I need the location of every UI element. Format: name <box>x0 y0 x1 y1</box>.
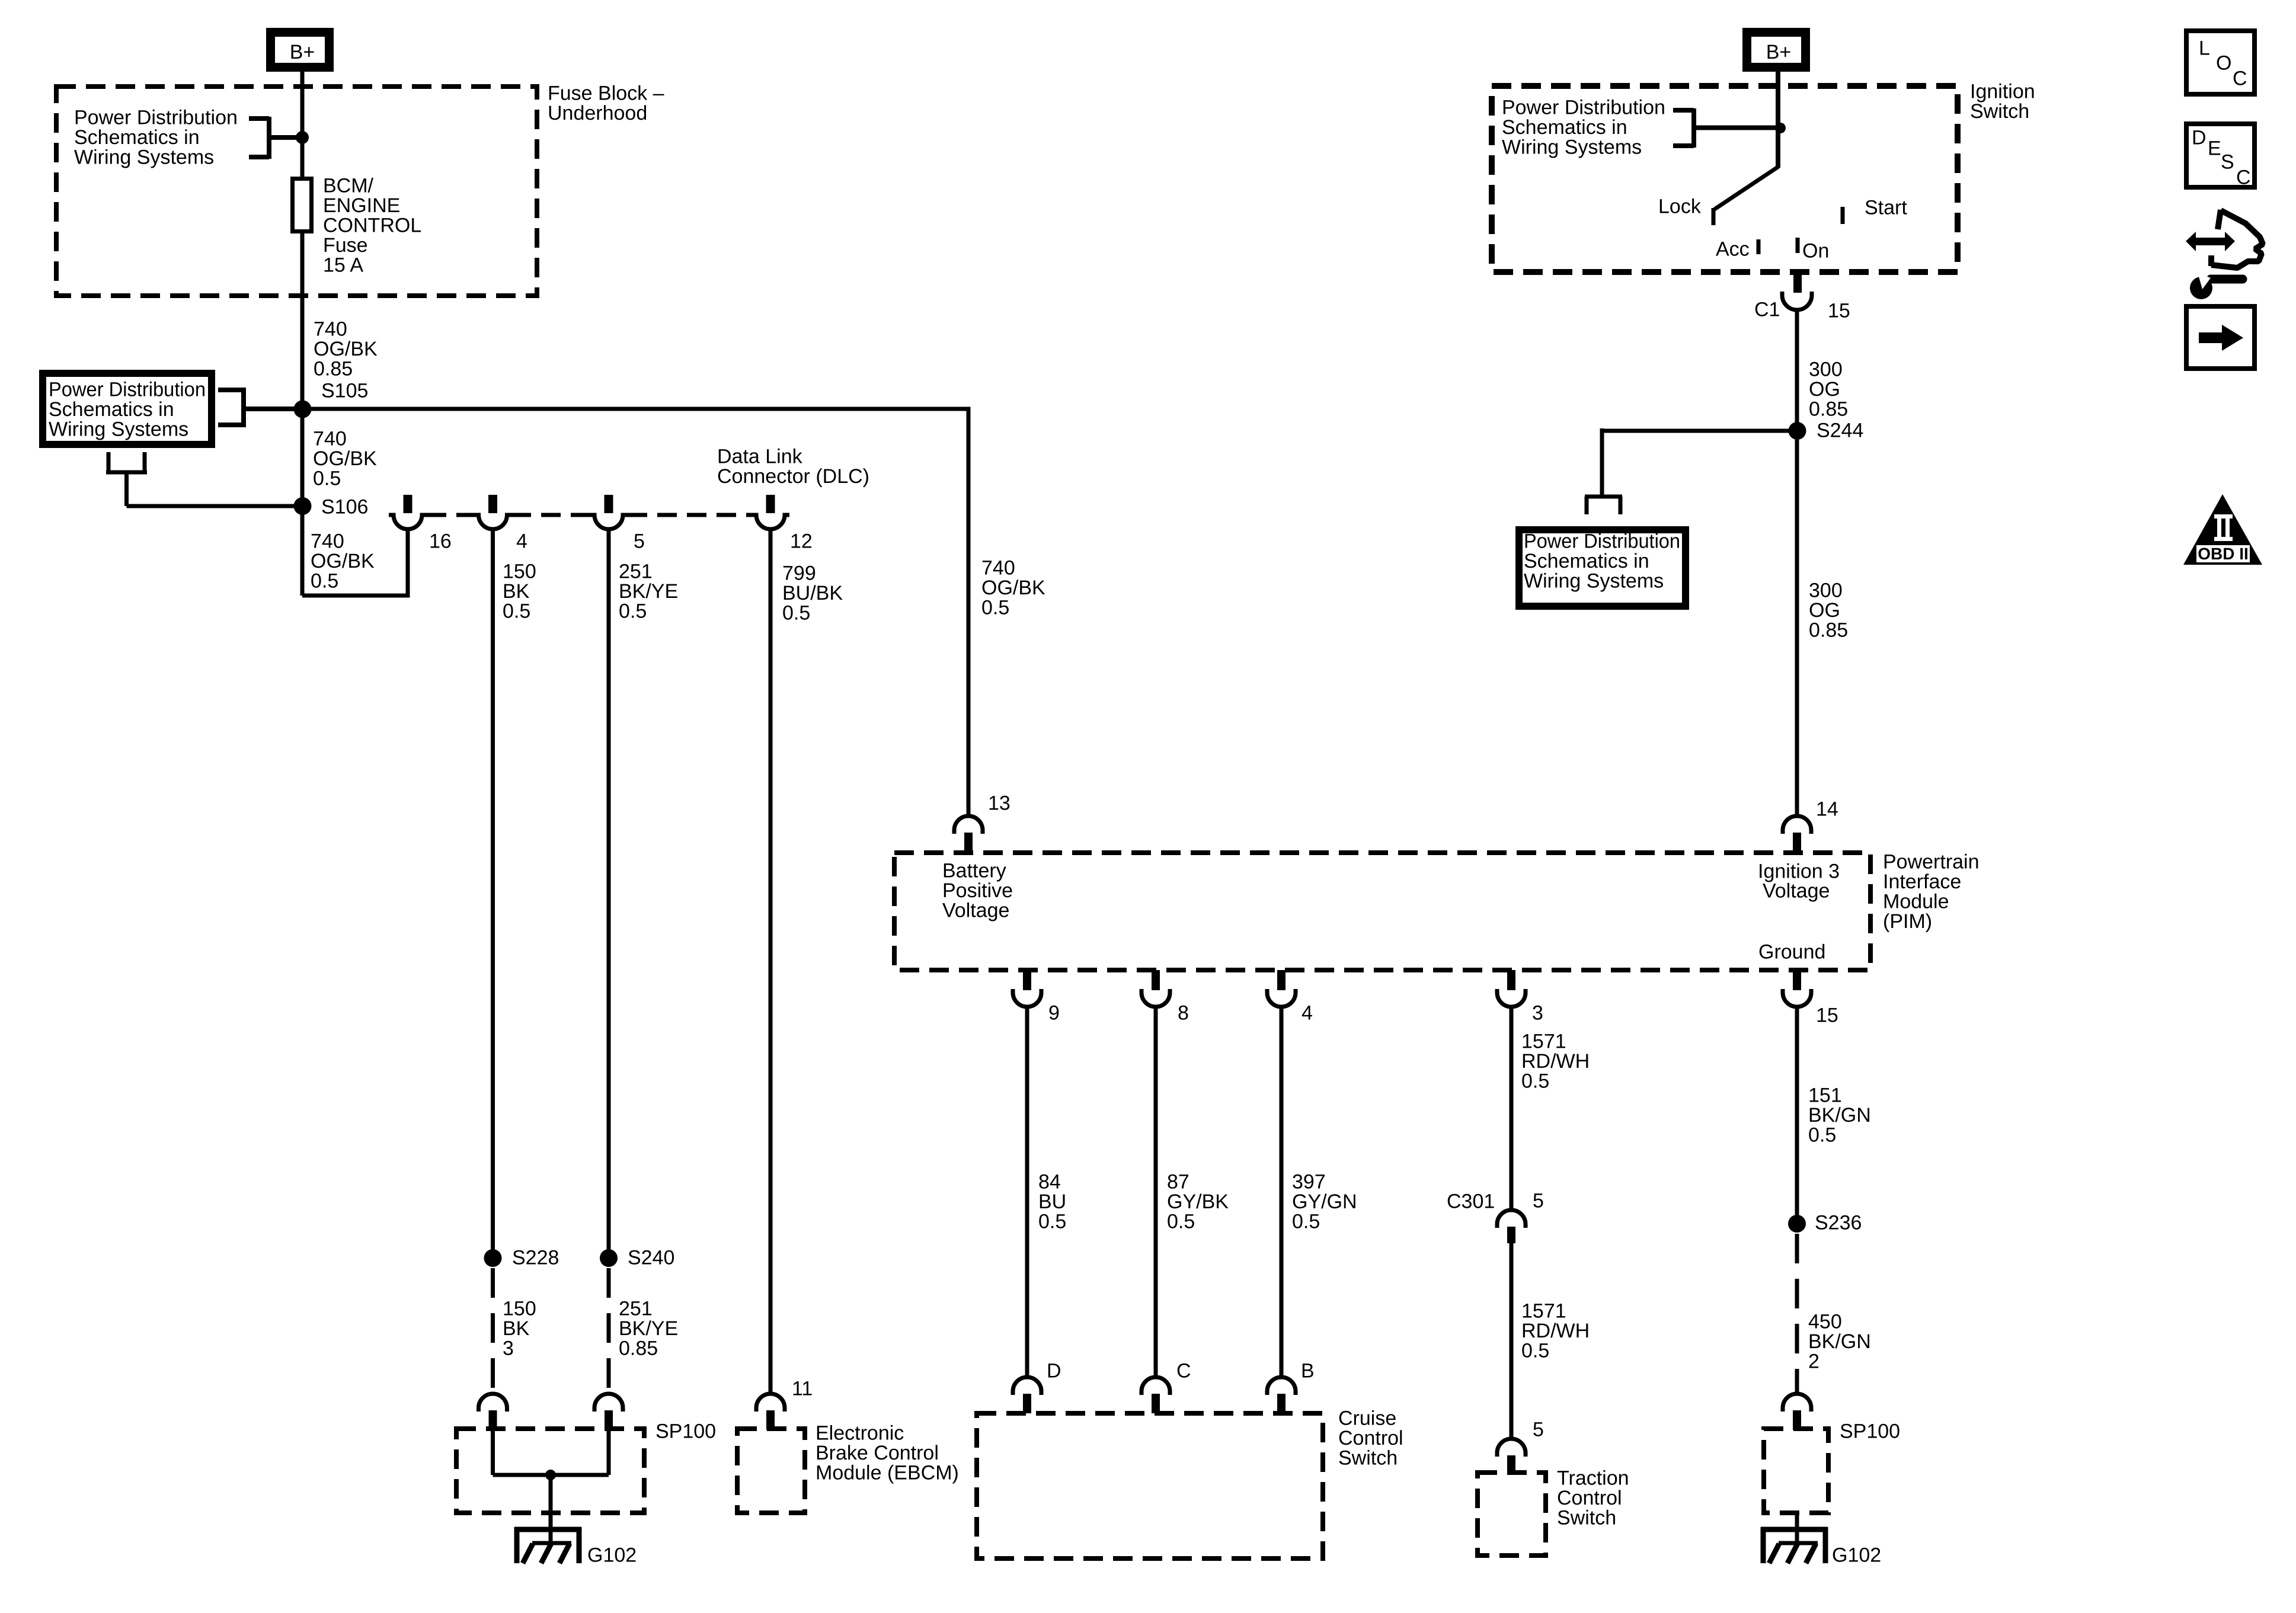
label wire 84 BU 0.5 <box>1038 1171 1066 1233</box>
svg-text:S236: S236 <box>1815 1212 1862 1234</box>
label pin 12 <box>790 530 813 553</box>
connector DLC pin 5 <box>590 495 628 529</box>
label wire 740 OG/BK 0.5 (S106-DLC16) <box>311 530 375 593</box>
svg-text:14: 14 <box>1816 798 1838 821</box>
component box Powertrain Interface Module (dashed) <box>894 853 1870 970</box>
label pin 8 <box>1178 1002 1189 1025</box>
svg-text:16: 16 <box>429 530 452 553</box>
svg-text:Ground: Ground <box>1758 941 1825 964</box>
label Cruise Control Switch <box>1338 1407 1403 1470</box>
label pin 14 <box>1816 798 1838 821</box>
svg-text:S240: S240 <box>628 1247 674 1269</box>
svg-text:Schematics in: Schematics in <box>74 126 200 149</box>
wire SP100 internal join <box>493 1429 609 1542</box>
component box SP100 splice pack (right, dashed) <box>1764 1429 1828 1513</box>
svg-text:SP100: SP100 <box>1840 1420 1900 1443</box>
svg-text:0.5: 0.5 <box>313 468 341 490</box>
svg-text:OG/BK: OG/BK <box>311 550 375 572</box>
label Power Distribution (left box) <box>49 379 206 441</box>
wire 251 BK/YE from DLC pin 5 to S240 <box>607 529 611 1258</box>
svg-text:Switch: Switch <box>1557 1507 1616 1529</box>
contact tick Lock <box>1712 208 1716 225</box>
svg-text:RD/WH: RD/WH <box>1521 1050 1590 1073</box>
svg-text:3: 3 <box>1532 1002 1543 1025</box>
wire 1571 RD/WH from PIM 3 to C301 <box>1510 1007 1514 1210</box>
svg-text:OG/BK: OG/BK <box>981 577 1045 599</box>
svg-text:0.85: 0.85 <box>619 1337 658 1360</box>
label wire 300 OG 0.85 (upper) <box>1809 359 1848 421</box>
wire ignition switch wiper to Lock <box>1715 167 1779 209</box>
node S228 <box>484 1249 502 1267</box>
label pin 11 <box>792 1378 813 1400</box>
connector cruise control switch pin B <box>1267 1377 1296 1413</box>
label Start <box>1865 197 1907 219</box>
component box Cruise Control Switch (dashed) <box>977 1413 1323 1558</box>
svg-text:BCM/: BCM/ <box>323 175 374 197</box>
label G102 (left) <box>587 1544 637 1567</box>
label pin 3 <box>1532 1002 1543 1025</box>
svg-text:B: B <box>1301 1360 1315 1382</box>
connector PIM pin 15 (bottom) <box>1783 970 1811 1007</box>
svg-text:S228: S228 <box>512 1247 559 1269</box>
connector C1 pin 15 <box>1782 272 1812 310</box>
label pin 15 <box>1816 1004 1838 1027</box>
label S105 <box>321 380 368 402</box>
bracket left box to S105 <box>218 388 295 427</box>
label pin C <box>1176 1360 1191 1382</box>
svg-text:S244: S244 <box>1817 420 1863 442</box>
svg-text:C: C <box>1176 1360 1191 1382</box>
svg-text:3: 3 <box>503 1337 514 1360</box>
connector PIM pin 8 (bottom) <box>1141 970 1170 1007</box>
svg-text:87: 87 <box>1167 1171 1189 1193</box>
wire B+ to fuse <box>300 70 305 178</box>
label wire 450 BK/GN 2 <box>1808 1311 1871 1373</box>
svg-text:Powertrain: Powertrain <box>1883 851 1980 873</box>
connector EBCM pin 11 <box>756 1394 785 1430</box>
svg-text:Module: Module <box>1883 891 1949 913</box>
svg-text:450: 450 <box>1808 1311 1842 1333</box>
svg-text:CONTROL: CONTROL <box>323 215 421 237</box>
label pin 13 <box>988 792 1011 815</box>
svg-text:G102: G102 <box>587 1544 637 1567</box>
svg-text:397: 397 <box>1292 1171 1326 1193</box>
wire S244 branch left <box>1602 429 1797 433</box>
label pin 5 (C301) <box>1533 1190 1544 1212</box>
label wire 740 OG/BK 0.85 <box>314 318 378 380</box>
label C1 <box>1754 299 1780 321</box>
svg-text:D: D <box>2192 127 2207 149</box>
node S106 <box>294 497 312 515</box>
label Ground <box>1758 941 1825 964</box>
svg-text:Power Distribution: Power Distribution <box>1502 97 1665 119</box>
label G102 (right) <box>1832 1544 1881 1567</box>
svg-text:GY/BK: GY/BK <box>1167 1190 1229 1213</box>
svg-text:GY/GN: GY/GN <box>1292 1190 1357 1213</box>
label Power Distribution (right box) <box>1524 530 1680 593</box>
svg-text:Power Distribution: Power Distribution <box>1524 530 1680 553</box>
bracket to B+ feed <box>249 117 296 159</box>
svg-text:OG: OG <box>1809 599 1840 622</box>
label Voltage (Ignition 3) <box>1763 880 1830 902</box>
svg-text:Lock: Lock <box>1658 196 1702 218</box>
label wire 1571 RD/WH 0.5 (lower) <box>1521 1300 1590 1362</box>
label pin 4 <box>1302 1002 1313 1025</box>
svg-text:15: 15 <box>1828 300 1850 322</box>
svg-text:9: 9 <box>1048 1002 1060 1025</box>
connector PIM pin 9 (bottom) <box>1013 970 1041 1007</box>
svg-text:Switch: Switch <box>1970 100 2029 123</box>
power symbol B+ (left) <box>271 33 330 68</box>
svg-text:Interface: Interface <box>1883 870 1961 893</box>
wire S106 to DLC pin 16 <box>302 529 408 596</box>
svg-text:BK/YE: BK/YE <box>619 580 678 603</box>
svg-text:8: 8 <box>1178 1002 1189 1025</box>
node S236 <box>1788 1215 1806 1233</box>
svg-text:1571: 1571 <box>1521 1030 1566 1053</box>
label pin 5 (traction) <box>1533 1419 1544 1441</box>
contact tick Acc <box>1757 239 1761 254</box>
label Power Distribution Schematics in Wiring Systems (fuse block) <box>74 107 238 169</box>
label Battery Positive Voltage <box>942 860 1013 922</box>
icon OBD II triangle <box>2183 494 2262 565</box>
svg-text:Wiring Systems: Wiring Systems <box>1502 136 1642 159</box>
svg-text:Voltage: Voltage <box>1763 880 1830 902</box>
svg-text:Data Link: Data Link <box>717 446 803 468</box>
svg-text:Underhood: Underhood <box>548 102 647 124</box>
svg-text:B+: B+ <box>1766 41 1792 63</box>
svg-text:G102: G102 <box>1832 1544 1881 1567</box>
svg-text:Fuse Block –: Fuse Block – <box>548 82 664 105</box>
contact tick Start <box>1841 207 1845 224</box>
svg-text:C1: C1 <box>1754 299 1780 321</box>
svg-text:Schematics in: Schematics in <box>1502 116 1627 139</box>
svg-text:Voltage: Voltage <box>942 900 1009 922</box>
label C301 <box>1447 1190 1495 1213</box>
svg-text:Control: Control <box>1557 1487 1622 1509</box>
svg-text:L: L <box>2199 37 2210 60</box>
label wire 799 BU/BK 0.5 <box>782 562 843 625</box>
label SP100 (left) <box>655 1420 716 1443</box>
connector C301 pin 5 <box>1497 1210 1526 1243</box>
label S240 <box>628 1247 674 1269</box>
label pin 15 (C1) <box>1828 300 1850 322</box>
connector cruise control switch pin C <box>1141 1377 1170 1413</box>
component box SP100 splice pack (left, dashed) <box>456 1429 644 1513</box>
label wire 150 BK 3 <box>503 1298 536 1360</box>
svg-text:1571: 1571 <box>1521 1300 1566 1323</box>
label Traction Control Switch <box>1557 1467 1629 1529</box>
label pin D <box>1047 1360 1061 1382</box>
svg-text:BU: BU <box>1038 1190 1066 1213</box>
label wire 1571 RD/WH 0.5 (upper) <box>1521 1030 1590 1093</box>
svg-text:0.5: 0.5 <box>1521 1070 1549 1093</box>
svg-text:B+: B+ <box>290 41 315 63</box>
label fuse BCM/ENGINE CONTROL 15 A <box>323 175 421 277</box>
svg-text:RD/WH: RD/WH <box>1521 1320 1590 1342</box>
connector PIM pin 3 (bottom) <box>1497 970 1526 1007</box>
svg-text:BU/BK: BU/BK <box>782 582 843 604</box>
label wire 150 BK 0.5 <box>503 561 536 623</box>
label Electronic Brake Control Module (EBCM) <box>816 1422 959 1484</box>
svg-text:ENGINE: ENGINE <box>323 194 400 217</box>
svg-text:0.5: 0.5 <box>782 602 810 625</box>
svg-text:Wiring Systems: Wiring Systems <box>49 418 188 441</box>
label Ignition Switch <box>1970 81 2035 123</box>
svg-text:15 A: 15 A <box>323 254 363 277</box>
svg-text:D: D <box>1047 1360 1061 1382</box>
fork connection left box to S106 <box>106 452 295 506</box>
svg-text:0.5: 0.5 <box>981 597 1009 619</box>
contact tick On <box>1796 238 1800 253</box>
component box Fuse Block - Underhood (dashed) <box>56 87 537 296</box>
label S228 <box>512 1247 559 1269</box>
icon arrow box <box>2186 306 2255 369</box>
svg-text:251: 251 <box>619 1298 653 1320</box>
label wire 87 GY/BK 0.5 <box>1167 1171 1229 1233</box>
svg-text:Battery: Battery <box>942 860 1006 882</box>
label pin 4 <box>516 530 527 553</box>
svg-text:Electronic: Electronic <box>816 1422 904 1445</box>
junction dot ignition feed <box>1775 123 1786 133</box>
label S236 <box>1815 1212 1862 1234</box>
svg-text:13: 13 <box>988 792 1011 815</box>
svg-text:C: C <box>2233 68 2247 90</box>
component box Power Distribution Schematics in Wiring Systems (left) <box>43 373 212 444</box>
svg-text:BK/GN: BK/GN <box>1808 1104 1871 1126</box>
connector DLC pin 4 <box>474 495 512 529</box>
svg-text:Wiring Systems: Wiring Systems <box>1524 570 1664 593</box>
svg-text:Module (EBCM): Module (EBCM) <box>816 1462 959 1484</box>
label wire 740 OG/BK 0.5 (S105-S106) <box>313 428 377 490</box>
label Ignition 3 <box>1758 860 1840 883</box>
svg-text:E: E <box>2208 137 2221 160</box>
svg-text:Cruise: Cruise <box>1338 1407 1396 1430</box>
icon wrench with arrows <box>2186 210 2263 299</box>
svg-text:(PIM): (PIM) <box>1883 910 1932 933</box>
svg-text:2: 2 <box>1808 1350 1819 1373</box>
svg-text:BK: BK <box>503 1317 530 1340</box>
label wire 251 BK/YE 0.5 <box>619 561 678 623</box>
node S244 <box>1789 422 1806 440</box>
connector into SP100 left (from S240) <box>594 1394 623 1430</box>
svg-text:Power Distribution: Power Distribution <box>49 379 206 401</box>
label S244 <box>1817 420 1863 442</box>
svg-text:5: 5 <box>1533 1190 1544 1212</box>
wire 150 BK 3 dashed <box>491 1268 495 1394</box>
svg-text:251: 251 <box>619 561 653 583</box>
svg-text:799: 799 <box>782 562 816 585</box>
svg-text:Connector (DLC): Connector (DLC) <box>717 465 869 488</box>
svg-text:150: 150 <box>503 561 536 583</box>
svg-text:0.5: 0.5 <box>619 600 647 623</box>
label On <box>1802 240 1829 263</box>
svg-text:S106: S106 <box>321 496 368 519</box>
svg-text:Start: Start <box>1865 197 1907 219</box>
svg-text:11: 11 <box>792 1378 813 1400</box>
label SP100 (right) <box>1840 1420 1900 1443</box>
label wire 251 BK/YE 0.85 <box>619 1298 678 1360</box>
connector PIM pin 4 (bottom) <box>1267 970 1296 1007</box>
svg-text:0.85: 0.85 <box>1809 619 1848 642</box>
svg-text:OG/BK: OG/BK <box>314 338 378 360</box>
svg-text:Ignition: Ignition <box>1970 81 2035 103</box>
label Data Link Connector (DLC) <box>717 446 869 488</box>
component box Electronic Brake Control Module (dashed) <box>737 1429 805 1513</box>
component box Traction Control Switch (dashed) <box>1478 1473 1546 1556</box>
svg-text:12: 12 <box>790 530 813 553</box>
svg-text:5: 5 <box>634 530 645 553</box>
svg-text:Fuse: Fuse <box>323 234 368 257</box>
svg-text:151: 151 <box>1808 1084 1842 1107</box>
svg-text:Schematics in: Schematics in <box>49 398 174 421</box>
svg-text:On: On <box>1802 240 1829 263</box>
svg-text:Control: Control <box>1338 1427 1403 1449</box>
connector into SP100 right <box>1783 1394 1811 1430</box>
connector PIM pin 13 <box>954 816 983 854</box>
label pin 9 <box>1048 1002 1060 1025</box>
svg-text:OBD II: OBD II <box>2198 545 2249 563</box>
svg-text:O: O <box>2216 52 2231 75</box>
wire 251 BK/YE 0.85 dashed <box>607 1268 611 1394</box>
wire S105 to PIM pin 13 <box>302 409 968 816</box>
label Power Distribution (ignition box) <box>1502 97 1665 159</box>
svg-text:Positive: Positive <box>942 879 1013 902</box>
svg-text:15: 15 <box>1816 1004 1838 1027</box>
svg-text:0.5: 0.5 <box>311 570 338 593</box>
wire 799 BU/BK from DLC pin 12 to EBCM pin 11 <box>769 530 773 1394</box>
junction dot SP100 (left) <box>545 1470 556 1480</box>
icon DESC box <box>2186 124 2255 189</box>
svg-text:Wiring Systems: Wiring Systems <box>74 146 214 169</box>
label pin 16 <box>429 530 452 553</box>
svg-text:C301: C301 <box>1447 1190 1495 1213</box>
svg-text:0.5: 0.5 <box>503 600 530 623</box>
svg-text:740: 740 <box>314 318 347 341</box>
wire DLC dashed line seg 1 <box>427 513 474 517</box>
label S106 <box>321 496 368 519</box>
wire 397 GY/GN from PIM 4 to cruise B <box>1280 1007 1284 1378</box>
svg-text:SP100: SP100 <box>655 1420 716 1443</box>
svg-text:740: 740 <box>981 557 1015 580</box>
svg-text:Schematics in: Schematics in <box>1524 550 1649 572</box>
component box Ignition Switch (dashed) <box>1492 86 1958 272</box>
fuse BCM/ENGINE CONTROL 15 A <box>293 179 312 232</box>
label Acc <box>1716 238 1750 261</box>
ground G102 (left) <box>514 1527 581 1563</box>
label wire 151 BK/GN 0.5 <box>1808 1084 1871 1147</box>
wire DLC dashed line seg 2 <box>511 513 590 517</box>
svg-text:C: C <box>2236 167 2251 189</box>
connector DLC pin 16 <box>389 495 427 529</box>
connector PIM pin 14 <box>1783 816 1811 854</box>
wire SP100 right to ground <box>1795 1515 1799 1542</box>
svg-text:Acc: Acc <box>1716 238 1750 261</box>
ground G102 (right) <box>1761 1527 1828 1563</box>
wire 150 BK from DLC pin 4 to S228 <box>491 529 495 1258</box>
svg-text:S: S <box>2221 151 2234 174</box>
label Powertrain Interface Module (PIM) <box>1883 851 1980 933</box>
wire DLC dashed line seg 3 <box>628 513 752 517</box>
connector cruise control switch pin D <box>1013 1377 1041 1413</box>
label wire 740 OG/BK 0.5 (to PIM 13) <box>981 557 1045 619</box>
svg-text:4: 4 <box>516 530 527 553</box>
component box Power Distribution Schematics in Wiring Systems (right) <box>1519 530 1686 606</box>
svg-text:0.5: 0.5 <box>1038 1211 1066 1233</box>
svg-text:S105: S105 <box>321 380 368 402</box>
label wire 300 OG 0.85 (lower) <box>1809 580 1848 642</box>
svg-text:0.5: 0.5 <box>1521 1340 1549 1362</box>
svg-text:740: 740 <box>311 530 344 553</box>
power symbol B+ (right) <box>1747 33 1806 68</box>
connector into SP100 left (from S228) <box>479 1394 507 1430</box>
label pin 5 <box>634 530 645 553</box>
svg-text:0.5: 0.5 <box>1292 1211 1320 1233</box>
svg-text:0.5: 0.5 <box>1808 1124 1836 1147</box>
label Lock <box>1658 196 1702 218</box>
node S105 <box>294 401 312 418</box>
svg-text:0.5: 0.5 <box>1167 1211 1195 1233</box>
svg-text:740: 740 <box>313 428 347 450</box>
svg-text:OG/BK: OG/BK <box>313 447 377 470</box>
wire B+ into ignition switch <box>1776 70 1780 168</box>
wire 87 GY/BK from PIM 8 to cruise C <box>1154 1007 1158 1378</box>
svg-text:Brake Control: Brake Control <box>816 1442 939 1464</box>
svg-text:4: 4 <box>1302 1002 1313 1025</box>
svg-text:BK/GN: BK/GN <box>1808 1330 1871 1353</box>
svg-text:OG: OG <box>1809 378 1840 401</box>
wire 151 BK/GN from PIM 15 to S236 <box>1795 1007 1799 1224</box>
svg-text:300: 300 <box>1809 580 1843 602</box>
svg-text:84: 84 <box>1038 1171 1061 1193</box>
svg-text:150: 150 <box>503 1298 536 1320</box>
svg-text:5: 5 <box>1533 1419 1544 1441</box>
svg-text:0.85: 0.85 <box>314 358 353 380</box>
connector DLC pin 12 <box>752 495 789 529</box>
bracket ignition note to switch feed <box>1673 108 1777 148</box>
wire 84 BU from PIM 9 to cruise D <box>1025 1007 1029 1378</box>
wire 740 OG/BK from fuse through S105/S106 <box>300 232 305 596</box>
junction dot on B+ feed <box>296 131 309 144</box>
svg-text:Power Distribution: Power Distribution <box>74 107 238 129</box>
wire 450 BK/GN 2 dashed <box>1795 1234 1799 1394</box>
wire 1571 RD/WH from C301 to traction switch <box>1510 1243 1514 1439</box>
svg-text:Traction: Traction <box>1557 1467 1629 1490</box>
svg-text:Switch: Switch <box>1338 1447 1398 1470</box>
fork connection S244 to power distribution note <box>1585 428 1622 514</box>
svg-text:BK: BK <box>503 580 530 603</box>
icon LOC box <box>2186 31 2255 94</box>
wire 300 OG from C1 to PIM pin 14 <box>1795 310 1799 816</box>
label Fuse Block - Underhood <box>548 82 664 125</box>
svg-text:0.85: 0.85 <box>1809 398 1848 421</box>
node S240 <box>600 1249 618 1267</box>
connector traction control switch pin 5 <box>1497 1439 1526 1475</box>
svg-text:300: 300 <box>1809 359 1843 381</box>
label wire 397 GY/GN 0.5 <box>1292 1171 1357 1233</box>
label pin B <box>1301 1360 1315 1382</box>
svg-text:BK/YE: BK/YE <box>619 1317 678 1340</box>
